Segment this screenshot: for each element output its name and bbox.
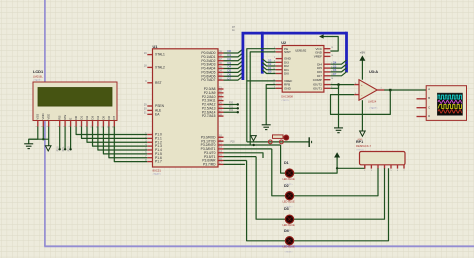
U1 pin P0.2/AD2 xyxy=(218,60,224,62)
LED D3 symbol xyxy=(285,215,293,223)
wire U1 P3.3 to LED D2 feeder xyxy=(224,148,272,150)
wire feeder to LED D4 xyxy=(247,161,286,241)
svg-text:2: 2 xyxy=(331,83,332,85)
svg-text:4: 4 xyxy=(58,126,60,127)
svg-text:6: 6 xyxy=(274,50,275,52)
svg-text:8: 8 xyxy=(274,61,275,63)
U2 pin GND (right) xyxy=(324,52,331,54)
wire LCD RS stub to label xyxy=(59,127,61,149)
svg-text:D5: D5 xyxy=(333,64,337,68)
power arrow left (VCC) xyxy=(319,34,324,38)
junction on P3.2 wire xyxy=(253,144,255,146)
svg-text:COMP: COMP xyxy=(313,78,322,82)
wire U2 DI7 to bus xyxy=(330,72,346,76)
U1 pin P2.4/A12 xyxy=(218,103,224,105)
svg-text:D2: D2 xyxy=(85,116,89,120)
U2 pin COMP (right) xyxy=(324,79,331,81)
svg-text:<TEXT>: <TEXT> xyxy=(281,99,290,102)
svg-text:RS: RS xyxy=(58,116,62,120)
U1 pin P3.1/TXD xyxy=(218,140,224,142)
svg-text:12: 12 xyxy=(331,74,333,76)
svg-text:1: 1 xyxy=(331,51,332,53)
U1 pin P3.4/T0 xyxy=(218,152,224,154)
svg-text:SWT: SWT xyxy=(284,50,291,54)
svg-text:9: 9 xyxy=(274,64,275,66)
wire op-amp output to scope A xyxy=(384,89,426,91)
svg-text:P2.1: P2.1 xyxy=(63,146,65,151)
svg-text:16: 16 xyxy=(331,78,333,80)
svg-text:D7: D7 xyxy=(112,116,116,120)
wire LCD VEE down xyxy=(48,127,50,146)
wire U2 DI4 to bus xyxy=(330,60,346,64)
junction VDD node xyxy=(42,138,44,140)
wire IOUT node to ground xyxy=(338,85,340,128)
svg-text:3: 3 xyxy=(274,87,275,89)
svg-text:13: 13 xyxy=(331,47,333,49)
svg-text:VSS: VSS xyxy=(36,114,40,120)
wire LCD D4 to U1 P1.4 xyxy=(98,127,147,150)
svg-text:D6: D6 xyxy=(107,116,111,120)
op-amp U3:A output stub xyxy=(377,89,384,91)
RP1 pin 3 xyxy=(377,165,379,169)
svg-text:D: D xyxy=(428,114,430,118)
U1 pin P3.2/INT0 xyxy=(218,144,224,146)
ground below op-amp input (bars) xyxy=(334,127,343,129)
U2 pin VREF (left) xyxy=(276,80,283,82)
svg-text:U1: U1 xyxy=(153,44,159,49)
capacitor plate at VREF row end xyxy=(308,137,310,147)
svg-text:P0.7/AD7: P0.7/AD7 xyxy=(201,78,215,82)
scope input pin stub xyxy=(417,98,427,100)
svg-text:D1: D1 xyxy=(284,161,289,165)
svg-text:D7: D7 xyxy=(333,72,337,76)
svg-text:P2.0: P2.0 xyxy=(58,146,60,151)
U1 pin P3.7/RD xyxy=(218,163,224,165)
bus vertical to U2 right xyxy=(345,32,348,73)
wire U1 P0.7 to bus xyxy=(224,76,243,80)
svg-text:+5V: +5V xyxy=(360,51,365,55)
svg-text:LED-BLUE: LED-BLUE xyxy=(283,201,296,204)
U1 pin EA xyxy=(147,113,152,115)
wire LCD D5 to U1 P1.5 xyxy=(103,127,147,154)
svg-text:D1: D1 xyxy=(268,66,272,70)
svg-text:VREF: VREF xyxy=(314,55,322,59)
U1 pin P0.6/AD6 xyxy=(218,75,224,77)
wire bus entry to U2 DI0 xyxy=(262,70,275,74)
svg-text:LED-BLUE: LED-BLUE xyxy=(283,224,296,227)
svg-text:RW: RW xyxy=(63,115,67,120)
wire U2 VREF+ left xyxy=(247,80,276,82)
svg-text:7: 7 xyxy=(331,63,332,65)
U1 pin P1.7 xyxy=(147,161,152,163)
scope trace channel C (yellow square) xyxy=(438,105,462,109)
U1 pin PSEN xyxy=(147,105,152,107)
scope trace channel A (cyan square) xyxy=(438,95,462,99)
RP1 pin 6 xyxy=(397,165,399,169)
svg-text:D4: D4 xyxy=(96,116,100,120)
svg-text:VDD: VDD xyxy=(41,113,45,119)
svg-text:<TEXT>: <TEXT> xyxy=(153,173,162,176)
wire U1 P0.4 to bus xyxy=(224,65,243,69)
U2 pin DI0 (left) xyxy=(276,73,283,75)
U1 pin P3.3/INT1 xyxy=(218,148,224,150)
LED D2 symbol xyxy=(285,192,293,200)
svg-text:D1: D1 xyxy=(79,116,83,120)
svg-text:P1.7: P1.7 xyxy=(155,160,162,164)
svg-text:3: 3 xyxy=(47,126,49,127)
svg-text:10: 10 xyxy=(91,126,93,128)
svg-text:B: B xyxy=(428,96,430,100)
svg-text:P20: P20 xyxy=(229,102,234,104)
svg-text:14: 14 xyxy=(113,126,115,128)
U1 pin P2.5/A13 xyxy=(218,107,224,109)
op-amp U3:A triangle xyxy=(359,80,377,101)
scope input pin stub xyxy=(417,107,427,109)
svg-text:-: - xyxy=(361,93,362,97)
svg-text:P22: P22 xyxy=(229,110,234,112)
svg-text:D3: D3 xyxy=(90,116,94,120)
svg-text:D2: D2 xyxy=(284,184,289,188)
svg-text:2: 2 xyxy=(42,126,44,127)
svg-text:P3.7/RD: P3.7/RD xyxy=(203,162,216,166)
svg-text:6: 6 xyxy=(69,126,71,127)
wire U1 P3.7 stub xyxy=(224,163,245,165)
wire LCD D3 to U1 P1.3 xyxy=(93,127,148,147)
svg-text:7: 7 xyxy=(404,170,405,172)
wire U1 P0.0 to bus xyxy=(224,49,243,53)
wire U1 P0.5 to bus xyxy=(224,68,243,72)
wire U1 P3.6 to LED D4 feeder xyxy=(224,160,247,162)
wire U1 P0.2 to bus xyxy=(224,57,243,61)
svg-text:RP1: RP1 xyxy=(356,140,363,144)
svg-text:LCD1: LCD1 xyxy=(33,69,44,74)
wire feedback loop xyxy=(331,90,391,114)
svg-text:PSEN: PSEN xyxy=(155,104,165,108)
LCD screen xyxy=(38,88,112,107)
svg-text:10: 10 xyxy=(273,68,275,70)
svg-text:11: 11 xyxy=(273,72,275,74)
U1 pin P0.5/AD5 xyxy=(218,71,224,73)
svg-text:2: 2 xyxy=(274,57,275,59)
wire LCD D2 to U1 P1.2 xyxy=(87,127,147,143)
U1 pin P2.0/A8 xyxy=(218,88,224,90)
ground below U2 (bars) xyxy=(262,124,271,126)
svg-text:LM324: LM324 xyxy=(368,99,377,103)
LCD pin RW xyxy=(64,121,66,127)
wire LCD RW stub to label xyxy=(64,127,66,149)
wire U2 pin row2 to left vertical xyxy=(250,52,276,145)
svg-text:6: 6 xyxy=(331,67,332,69)
svg-text:D0: D0 xyxy=(74,116,78,120)
svg-text:1: 1 xyxy=(36,126,38,127)
wire VREF row xyxy=(247,141,309,143)
svg-text:1: 1 xyxy=(364,170,365,172)
LCD pin D5 xyxy=(102,121,104,127)
svg-text:80C51: 80C51 xyxy=(153,168,162,172)
LCD pin RS xyxy=(59,121,61,127)
wire U1 P2 stub P22 xyxy=(224,111,238,113)
svg-text:12: 12 xyxy=(102,126,104,128)
LCD pin D4 xyxy=(97,121,99,127)
U1 pin P1.1 xyxy=(147,137,152,139)
svg-text:LM016L: LM016L xyxy=(33,75,43,79)
svg-text:7: 7 xyxy=(75,126,77,127)
U1 pin P1.4 xyxy=(147,149,152,151)
svg-text:6: 6 xyxy=(397,170,398,172)
U1 pin P2.7/A15 xyxy=(218,115,224,117)
wire bus entry to U2 DI3 xyxy=(262,59,275,63)
wire LCD D7 to U1 P1.7 xyxy=(114,127,147,162)
U2 pin DI4 (right) xyxy=(324,63,331,65)
svg-text:<TEXT>: <TEXT> xyxy=(356,148,365,151)
U1 pin P1.2 xyxy=(147,141,152,143)
wire LED D4 to RP1 xyxy=(294,168,389,241)
svg-text:DI0: DI0 xyxy=(284,72,289,76)
svg-text:D4: D4 xyxy=(333,60,337,64)
svg-text:D7: D7 xyxy=(228,76,232,80)
U2 pin SWT (left) xyxy=(276,51,283,53)
U1 pin XTAL1 xyxy=(147,54,152,56)
U2 pin DI7 (right) xyxy=(324,75,331,77)
node label P2.1 xyxy=(64,148,66,150)
svg-text:P2.7/A15: P2.7/A15 xyxy=(202,114,216,118)
wire U2 DI6 to bus xyxy=(330,68,346,72)
svg-text:DAC0808: DAC0808 xyxy=(281,95,293,99)
U1 pin XTAL2 xyxy=(147,66,152,68)
wire LCD D6 to U1 P1.6 xyxy=(109,127,147,158)
svg-text:<TEXT>: <TEXT> xyxy=(285,251,294,254)
wire bus entry to U2 DI1 xyxy=(262,66,275,70)
power +5V arrow above op-amp xyxy=(359,56,365,61)
LED D1 symbol xyxy=(285,169,293,177)
wire LCD D0 to U1 P1.0 xyxy=(76,127,147,135)
U2 pin VCC (right) xyxy=(324,48,331,50)
wire U1 P2 stub P20 xyxy=(224,103,238,105)
LCD pin E xyxy=(70,121,72,127)
svg-text:RST: RST xyxy=(155,81,162,85)
wire violet +5V rail vertical (top) xyxy=(44,0,46,82)
scope input pin stub xyxy=(417,116,427,118)
bus vertical to U2 left xyxy=(261,32,264,74)
oscilloscope body xyxy=(426,86,466,121)
wire U2 DI5 to bus xyxy=(330,64,346,68)
svg-text:D5: D5 xyxy=(101,116,105,120)
node red dot xyxy=(284,135,289,140)
svg-text:D2: D2 xyxy=(268,62,272,66)
svg-text:LED-BLUE: LED-BLUE xyxy=(283,178,296,181)
U1 pin ALE xyxy=(147,109,152,111)
svg-text:GND: GND xyxy=(284,86,292,90)
wire U2 GND down xyxy=(266,88,276,124)
U1 pin P1.6 xyxy=(147,157,152,159)
LCD pin VSS xyxy=(37,121,39,127)
wire U1 P2 stub P21 xyxy=(224,107,238,109)
U1 pin P2.3/A11 xyxy=(218,100,224,102)
node label P22 xyxy=(237,111,239,113)
wire violet +5V rail horizontal bottom xyxy=(44,245,474,247)
junction IOUT node xyxy=(337,83,340,86)
U1 pin P0.1/AD1 xyxy=(218,56,224,58)
svg-text:E: E xyxy=(69,118,73,120)
svg-text:9: 9 xyxy=(85,126,87,127)
node label P20 xyxy=(237,103,239,105)
wire U1 P3.2 to LED D1 feeder xyxy=(224,144,281,146)
wire U2 VCC to power arrow xyxy=(323,37,338,52)
wire LCD VDD down xyxy=(42,127,44,140)
wire +5V arrow to RP1 pin 1 xyxy=(337,157,365,168)
RP1 pin 1 xyxy=(364,165,366,169)
svg-text:XTAL1: XTAL1 xyxy=(155,53,165,57)
wire bus entry to U2 DI2 xyxy=(262,63,275,67)
wire op-amp V+ to +5V xyxy=(361,60,363,80)
svg-text:2: 2 xyxy=(371,170,372,172)
svg-text:<TEXT>: <TEXT> xyxy=(33,79,42,82)
svg-text:1: 1 xyxy=(381,88,382,90)
wire U1 P0.3 to bus xyxy=(224,61,243,65)
resistor R1 pad left xyxy=(268,140,272,144)
RP1 pin 4 xyxy=(384,165,386,169)
svg-text:16: 16 xyxy=(331,55,333,57)
wire LCD E stub to label xyxy=(70,127,72,149)
svg-text:5: 5 xyxy=(355,93,356,95)
U1 pin RST xyxy=(147,82,152,84)
U1 pin P2.6/A14 xyxy=(218,111,224,113)
wire U2 IOUT1 join xyxy=(330,85,338,89)
wire op-amp V- down xyxy=(361,100,363,131)
svg-text:8: 8 xyxy=(80,126,82,127)
U2 pin DI1 (left) xyxy=(276,69,283,71)
power +5V arrow near RP1 xyxy=(334,152,340,157)
LCD pin D6 xyxy=(108,121,110,127)
RP1 pin 5 xyxy=(390,165,392,169)
node label P2.0 xyxy=(59,148,61,150)
U2 pin PE (left) xyxy=(276,48,283,50)
U2 pin DI5 (right) xyxy=(324,67,331,69)
resistor pack RP1 body xyxy=(360,152,406,165)
svg-text:LED-BLUE: LED-BLUE xyxy=(283,246,296,249)
junction +5V/D1 node xyxy=(336,167,338,169)
LCD pin D3 xyxy=(92,121,94,127)
wire LCD VSS to ground xyxy=(29,127,38,144)
node label P21 xyxy=(237,107,239,109)
wire feeder to LED D1 xyxy=(281,145,286,173)
wire LED D1 to +5V node xyxy=(294,168,338,173)
junction feedback node xyxy=(389,89,391,91)
wire LED D2 to RP1 xyxy=(294,168,378,196)
wire LED D3 to RP1 xyxy=(294,168,385,219)
svg-text:A: A xyxy=(428,87,430,91)
U2 pin GND (left) xyxy=(276,58,283,60)
svg-text:P30: P30 xyxy=(231,141,236,143)
U1 pin P1.5 xyxy=(147,153,152,155)
U1 pin P0.0/AD0 xyxy=(218,52,224,54)
wire U1 P3.5 to LED D3 feeder xyxy=(224,156,257,158)
scope trace channel D (red sine) xyxy=(438,110,462,113)
U1 pin P0.4/AD4 xyxy=(218,67,224,69)
wire feeder to LED D2 xyxy=(272,149,286,196)
wire feeder to LED D3 xyxy=(256,157,285,220)
node label P2.2 xyxy=(69,148,71,150)
resistor R1 body xyxy=(273,135,284,139)
U2 pin IOUT1 (right) xyxy=(324,87,331,89)
ground arrow at VEE xyxy=(45,146,51,151)
U1 pin P1.3 xyxy=(147,145,152,147)
RP1 pin 2 xyxy=(370,165,372,169)
resistor R1 pad right xyxy=(280,140,284,144)
IC U2 DAC0808 body xyxy=(282,46,324,93)
wire U1 P0.1 to bus xyxy=(224,53,243,57)
op-amp U3:A input stubs xyxy=(354,84,359,86)
svg-text:RESPACK-7: RESPACK-7 xyxy=(356,144,372,148)
LCD pin VEE xyxy=(48,121,50,127)
svg-text:P2.2: P2.2 xyxy=(68,146,70,151)
U1 pin P3.5/T1 xyxy=(218,156,224,158)
svg-text:5: 5 xyxy=(391,170,392,172)
RP1 pin 7 xyxy=(403,165,405,169)
oscilloscope screen xyxy=(437,93,462,115)
svg-text:5: 5 xyxy=(331,70,332,72)
LCD pin D7 xyxy=(113,121,115,127)
bus horizontal top xyxy=(242,32,347,35)
U1 pin P0.7/AD7 xyxy=(218,79,224,81)
LCD LCD1 LM016L body xyxy=(33,82,117,121)
svg-text:D0: D0 xyxy=(268,70,272,74)
U1 pin P0.3/AD3 xyxy=(218,64,224,66)
svg-text:D3: D3 xyxy=(284,207,289,211)
ground arrow on VREF row xyxy=(251,136,257,141)
wire U2 IOUT2 to op-amp + xyxy=(330,84,354,86)
svg-text:D6: D6 xyxy=(333,68,337,72)
wire U2 RFB to ground xyxy=(266,85,276,89)
svg-text:11: 11 xyxy=(96,126,98,128)
U1 pin P2.1/A9 xyxy=(218,92,224,94)
wire U1 P0.6 to bus xyxy=(224,72,243,76)
svg-text:VEE: VEE xyxy=(47,114,51,120)
LCD pin D0 xyxy=(75,121,77,127)
svg-text:ILE/B1/B2: ILE/B1/B2 xyxy=(295,49,307,52)
svg-text:XTAL2: XTAL2 xyxy=(155,66,165,70)
svg-text:13: 13 xyxy=(107,126,109,128)
U2 pin DI3 (left) xyxy=(276,61,283,63)
svg-text:P21: P21 xyxy=(229,106,234,108)
U2 pin DI2 (left) xyxy=(276,65,283,67)
svg-text:U3:A: U3:A xyxy=(369,69,378,74)
ground arrow below op-amp xyxy=(360,131,366,136)
svg-text:C: C xyxy=(428,105,430,109)
U2 pin DI6 (right) xyxy=(324,71,331,73)
bus vertical from U1 P0 xyxy=(241,33,244,80)
svg-text:5: 5 xyxy=(64,126,66,127)
wire violet +5V rail vertical (below LCD) xyxy=(44,121,46,247)
LCD pin D2 xyxy=(86,121,88,127)
U2 pin GND (left) xyxy=(276,87,283,89)
U2 pin VREF (right) xyxy=(324,55,331,57)
svg-text:4: 4 xyxy=(331,87,332,89)
svg-text:<TEXT>: <TEXT> xyxy=(369,107,378,110)
LCD pin VDD xyxy=(42,121,44,127)
LED D4 symbol xyxy=(285,237,293,245)
svg-text:15: 15 xyxy=(273,83,275,85)
svg-text:U2: U2 xyxy=(281,40,287,45)
wire VSS-VDD-VEE link xyxy=(29,138,49,140)
IC U1 80C51 body xyxy=(153,49,219,167)
svg-text:5: 5 xyxy=(274,47,275,49)
LCD pin D1 xyxy=(81,121,83,127)
wire LCD D1 to U1 P1.1 xyxy=(82,127,148,139)
wire U1 P3.4 stub xyxy=(224,153,264,158)
svg-text:3: 3 xyxy=(355,83,356,85)
svg-text:D3: D3 xyxy=(268,59,272,63)
